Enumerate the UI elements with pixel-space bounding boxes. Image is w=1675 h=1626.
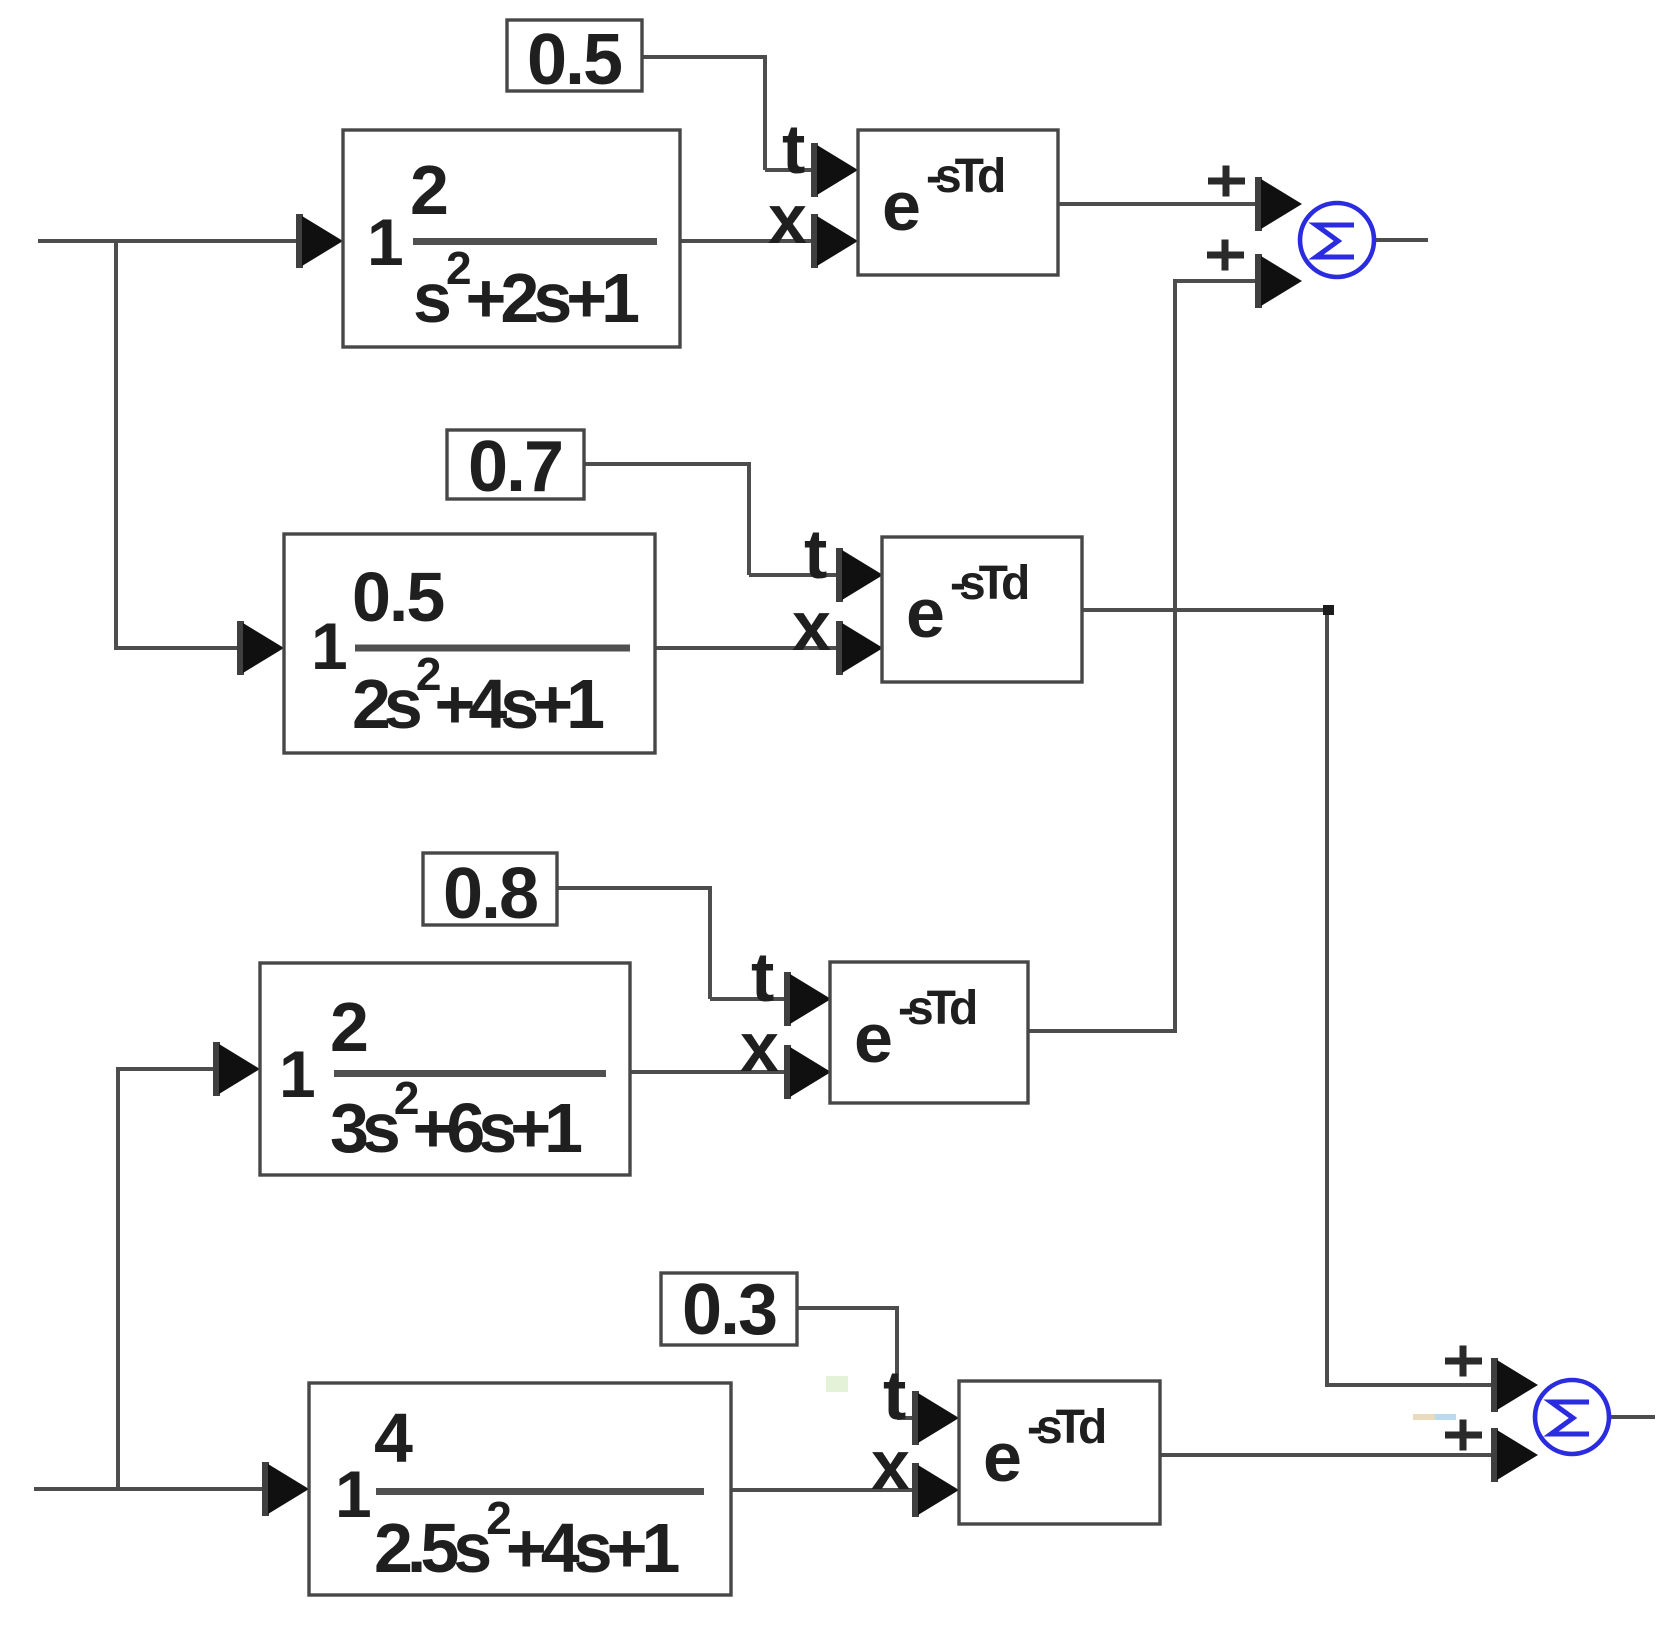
arrow into sum S2 plus input 2 [1491, 1428, 1538, 1482]
svg-text:x: x [768, 180, 807, 258]
svg-text:1: 1 [311, 609, 348, 683]
svg-text:x: x [792, 587, 831, 665]
arrow into G2 [237, 621, 284, 675]
transfer function block G3: 2/(3s^2+6s+1) [260, 963, 630, 1175]
arrow into delay U3 t port [784, 972, 831, 1026]
constant block 0.7 [447, 427, 584, 507]
wire delay U2 output to sum S2 [1083, 608, 1492, 1387]
arrow into G1 [296, 214, 343, 268]
svg-text:1: 1 [279, 1037, 316, 1111]
svg-text:t: t [751, 938, 774, 1016]
svg-text:-sTd: -sTd [898, 982, 976, 1035]
svg-text:t: t [782, 110, 805, 188]
svg-text:1: 1 [335, 1457, 372, 1531]
wire branch to G2 input [114, 646, 238, 650]
wire sum S1 output [1375, 238, 1428, 242]
wire branch to G3 input [116, 1067, 214, 1071]
svg-text:t: t [804, 515, 827, 593]
wire sum S2 output [1609, 1415, 1655, 1419]
arrow into delay U4 x port [912, 1463, 959, 1517]
svg-text:1: 1 [367, 205, 404, 279]
svg-text:0.5: 0.5 [352, 558, 443, 636]
constant block 0.3 [661, 1270, 797, 1350]
faint artifact blob near U4 t wire [826, 1376, 848, 1392]
svg-text:0.3: 0.3 [682, 1270, 776, 1350]
node branch of input 2 [116, 1069, 120, 1491]
svg-text:-sTd: -sTd [950, 557, 1028, 610]
port label t of U3 [751, 938, 774, 1016]
delay block U4 e^-sTd [959, 1381, 1160, 1524]
svg-text:e: e [983, 1418, 1022, 1496]
wire constant 0.8 to delay U3 t port [557, 886, 785, 1001]
constant block 0.8 [423, 853, 557, 934]
arrow into sum S2 plus input 1 [1491, 1358, 1538, 1412]
transfer function block G4: 4/(2.5s^2+4s+1) [309, 1383, 731, 1595]
arrow into delay U3 x port [784, 1045, 831, 1099]
svg-text:4: 4 [374, 1399, 413, 1477]
constant block 0.5 [507, 20, 642, 100]
wire G1 output to delay U1 x port [680, 239, 812, 243]
wire G4 output to delay U4 x port [731, 1488, 913, 1492]
svg-text:e: e [906, 574, 945, 652]
arrow into delay U2 t port [836, 548, 883, 602]
plus sign at sum S2 input 1 [1445, 1346, 1482, 1377]
port label x of U2 [792, 587, 831, 665]
port label x of U4 [871, 1426, 910, 1504]
delay block U1 e^-sTd [858, 130, 1058, 275]
transfer function block G1: 2/(s^2+2s+1) [343, 130, 680, 347]
wire delay U3 output to sum S1 [1027, 279, 1256, 1033]
delay block U3 e^-sTd [830, 962, 1028, 1103]
svg-text:2: 2 [410, 151, 447, 229]
svg-text:x: x [871, 1426, 910, 1504]
arrow into delay U4 t port [912, 1391, 959, 1445]
sum block S1 [1300, 203, 1374, 277]
svg-text:0.5: 0.5 [527, 20, 622, 100]
svg-text:t: t [883, 1356, 906, 1434]
port label t of U4 [883, 1356, 906, 1434]
svg-text:e: e [854, 999, 893, 1077]
plus sign at sum S1 input 2 [1207, 240, 1244, 271]
wire constant 0.7 to delay U2 t port [584, 462, 837, 577]
arrow into delay U1 x port [811, 214, 858, 268]
svg-text:2: 2 [330, 988, 367, 1066]
wire input 2 horizontal to G4 [34, 1487, 263, 1491]
svg-text:0.7: 0.7 [468, 427, 562, 507]
junction node on delay U2 output wire [1323, 605, 1334, 615]
arrow into G4 [262, 1462, 309, 1516]
wire delay U1 output to sum S1 [1057, 202, 1256, 206]
wire G2 output to delay U2 x port [655, 646, 837, 650]
node branch of input 1 [114, 239, 118, 650]
sum block S2 [1535, 1380, 1609, 1454]
arrow into G3 [213, 1042, 260, 1096]
plus sign at sum S1 input 1 [1208, 166, 1245, 197]
svg-text:x: x [740, 1008, 779, 1086]
plus sign at sum S2 input 2 [1445, 1420, 1482, 1451]
svg-text:-sTd: -sTd [1027, 1401, 1105, 1454]
arrow into delay U2 x port [836, 621, 883, 675]
transfer function block G2: 0.5/(2s^2+4s+1) [284, 534, 655, 753]
port label x of U3 [740, 1008, 779, 1086]
wire constant 0.3 to delay U4 t port [795, 1306, 913, 1420]
svg-text:-sTd: -sTd [926, 150, 1004, 203]
arrow into delay U1 t port [811, 143, 858, 197]
delay block U2 e^-sTd [882, 537, 1082, 682]
wire delay U4 output to sum S2 [1160, 1453, 1492, 1457]
port label t of U2 [804, 515, 827, 593]
wire G3 output to delay U3 x port [630, 1070, 785, 1074]
wire input 1 horizontal to G1 [38, 239, 297, 243]
arrow into sum S1 plus input 1 [1255, 177, 1302, 231]
arrow into sum S1 plus input 2 [1255, 254, 1302, 308]
faint artifact dash near sum S2 [1413, 1414, 1456, 1420]
svg-text:0.8: 0.8 [443, 854, 537, 934]
wire constant 0.5 to delay U1 t port [642, 55, 812, 172]
svg-text:e: e [882, 167, 921, 245]
port label t of U1 [782, 110, 805, 188]
port label x of U1 [768, 180, 807, 258]
